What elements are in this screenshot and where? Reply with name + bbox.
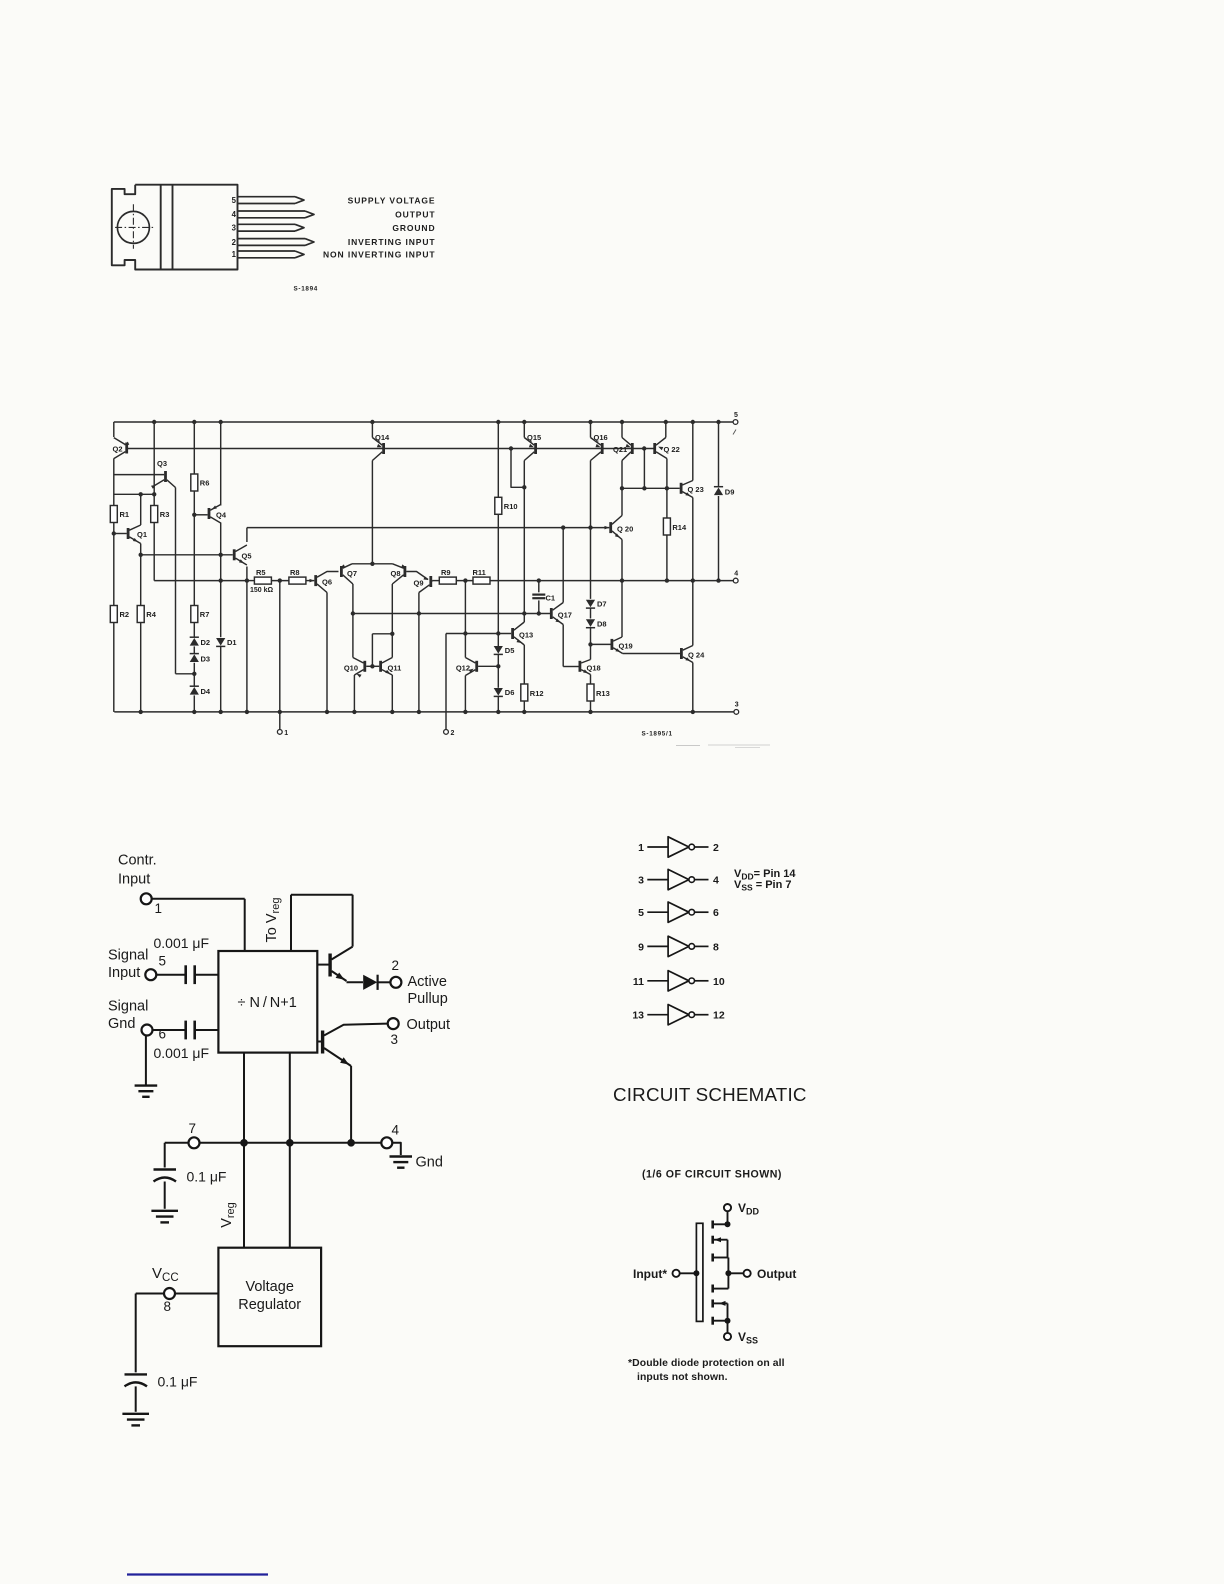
wire column Q3 collector [175, 488, 177, 674]
capacitor 0.001uF lower [153, 1029, 186, 1031]
transistor Q22 [653, 443, 656, 454]
transistor Q18 [579, 661, 582, 672]
svg-text:inputs not shown.: inputs not shown. [637, 1372, 728, 1383]
wire Q21 Q22 base tie down [643, 449, 645, 489]
pin 4 terminal [733, 578, 738, 583]
transistor Q15 [534, 443, 537, 454]
diode D2 [190, 638, 199, 646]
junction dots supply node [240, 1139, 248, 1147]
wire Q18 emitter to R13 [590, 675, 592, 685]
resistor R1 [110, 506, 117, 523]
wire compensation node line to Q17 base [353, 613, 550, 615]
diode D8 [586, 619, 595, 627]
wire Q11 emitter down [391, 675, 393, 712]
svg-text:R12: R12 [530, 689, 544, 698]
diode D7 [586, 600, 595, 608]
svg-text:Q6: Q6 [322, 578, 332, 587]
capacitor C1 [538, 581, 540, 593]
wire Q20 emitter to output rail [621, 540, 623, 581]
svg-text:R10: R10 [504, 502, 518, 511]
svg-text:C1: C1 [546, 594, 556, 603]
svg-text:Q21: Q21 [613, 445, 627, 454]
svg-text:5: 5 [638, 907, 644, 919]
svg-text:S-1895/1: S-1895/1 [642, 731, 673, 738]
transistor Q4 [208, 508, 211, 519]
diode D4 [190, 687, 199, 695]
svg-text:Input: Input [108, 965, 140, 981]
capacitor 0.001uF upper [156, 974, 185, 976]
wire Q14 emitter up [371, 422, 373, 438]
package pin 4 [238, 210, 306, 212]
junction dots bias line [561, 525, 565, 529]
transistor Q20 [609, 522, 612, 533]
transistor Q11 [379, 661, 382, 672]
svg-text:3: 3 [638, 875, 644, 887]
pin 3 terminal [734, 710, 739, 715]
wire lower emitter to ground node [350, 1066, 352, 1143]
wire Q15 base-collector loop [511, 449, 524, 488]
wire Q2-Q3 link line [114, 474, 164, 476]
VDD terminal [724, 1204, 731, 1211]
svg-text:13: 13 [632, 1010, 644, 1022]
diode D3 [190, 654, 199, 662]
pin 7 terminal [189, 1137, 200, 1148]
wire pin1 to divider block [152, 898, 245, 900]
junction dots bottom rail [139, 710, 143, 714]
wire base bus line y448 [127, 448, 655, 450]
junction dots output rail [219, 578, 223, 582]
wire Q13 emitter to R12 [523, 645, 525, 684]
voltage regulator block [218, 1248, 321, 1347]
transistor Q24 [680, 648, 683, 659]
ground symbol at pin 4 [392, 1143, 401, 1155]
wire Q23 collector up [692, 422, 694, 481]
pin 2 terminal [444, 730, 449, 735]
wire output node [728, 1272, 743, 1274]
svg-text:4: 4 [392, 1123, 400, 1138]
package pin 3 [238, 223, 296, 225]
svg-text:Pullup: Pullup [408, 991, 448, 1007]
svg-text:Q4: Q4 [216, 511, 227, 520]
junction dots compensation line [351, 611, 355, 615]
svg-text:Q12: Q12 [456, 663, 470, 672]
wire Q9 emitter column [418, 593, 420, 712]
svg-text:R2: R2 [120, 610, 130, 619]
svg-text:INVERTING INPUT: INVERTING INPUT [348, 237, 436, 247]
capacitor 0.1uF at pin7 [154, 1168, 177, 1170]
svg-text:Q2: Q2 [112, 445, 122, 454]
wire Q8 base to Q9 [406, 572, 428, 580]
svg-text:Voltage: Voltage [246, 1279, 294, 1295]
wire Q5 collector line to Q20 base [247, 527, 609, 529]
svg-text:12: 12 [713, 1010, 725, 1022]
svg-text:Regulator: Regulator [238, 1297, 301, 1313]
scan artifact dashes [676, 745, 700, 747]
diode to pin 2 [363, 975, 377, 990]
svg-text:Output: Output [757, 1267, 796, 1281]
pin 5 terminal [733, 420, 738, 425]
svg-text:D5: D5 [505, 646, 515, 655]
svg-text:1: 1 [284, 730, 288, 737]
svg-text:Q7: Q7 [347, 569, 357, 578]
svg-text:R13: R13 [596, 689, 610, 698]
wire node column N [464, 581, 466, 634]
svg-text:R8: R8 [290, 568, 300, 577]
transistor Q8 [403, 566, 406, 577]
wire Q19 collector up [621, 581, 623, 637]
wire Q20 collector up [621, 488, 623, 515]
pin 1 Control Input terminal [141, 893, 152, 904]
diode D1 [216, 638, 225, 646]
wire Q17 collector up [562, 528, 564, 603]
wire pin1 riser [279, 581, 281, 730]
svg-text:2: 2 [232, 238, 237, 247]
svg-text:6: 6 [159, 1027, 167, 1042]
wire supply node line pin7 to pin4 [200, 1142, 382, 1144]
junction dots Q23 base line [620, 486, 624, 490]
svg-text:6: 6 [713, 907, 719, 919]
svg-text:3: 3 [735, 702, 739, 709]
svg-text:0.001 μF: 0.001 μF [154, 935, 210, 951]
svg-text:7: 7 [189, 1121, 197, 1136]
svg-text:(1/6 OF CIRCUIT SHOWN): (1/6 OF CIRCUIT SHOWN) [642, 1169, 782, 1181]
resistor R13 [587, 684, 594, 701]
svg-text:D3: D3 [201, 654, 211, 663]
transistor Q16 [601, 443, 604, 454]
junction dots Q13 base line [463, 631, 467, 635]
package tab-body divider lines [160, 185, 162, 270]
svg-text:5: 5 [734, 412, 738, 419]
divider block N/N+1 [218, 951, 317, 1053]
svg-text:D8: D8 [597, 619, 607, 628]
wire Q19 emitter to Q24 base [623, 653, 680, 655]
svg-text:0.1 μF: 0.1 μF [158, 1374, 198, 1390]
wire Q16 emitter up [590, 422, 592, 438]
transistor Q10 [363, 661, 366, 672]
svg-text:Q17: Q17 [558, 611, 572, 620]
wire Q4 base link [194, 514, 207, 516]
package pin 2 [238, 238, 306, 240]
svg-text:0.1 μF: 0.1 μF [187, 1169, 227, 1185]
wire D9 column [718, 422, 720, 487]
svg-text:Q16: Q16 [594, 433, 608, 442]
junction dots base bus [509, 446, 513, 450]
svg-text:3: 3 [391, 1032, 399, 1047]
transistor Q12 [475, 661, 478, 672]
svg-text:D2: D2 [201, 638, 211, 647]
pin 2 Active Pullup terminal [390, 977, 401, 988]
wire output rail R5-R8 segment [247, 580, 255, 582]
transistor Q13 [511, 628, 514, 639]
wire Q8 collector column [391, 584, 393, 658]
junction dot emitter bus [370, 562, 374, 566]
diode D6 [494, 688, 503, 696]
svg-text:R5: R5 [256, 568, 266, 577]
svg-text:Output: Output [407, 1017, 451, 1033]
package mounting hole [117, 211, 149, 243]
package pin 1 [238, 250, 296, 252]
svg-text:Q1: Q1 [137, 530, 147, 539]
transistor Q23 [680, 483, 683, 494]
svg-text:0.001 μF: 0.001 μF [154, 1045, 210, 1061]
wire top supply rail to pin 5 [114, 421, 733, 423]
resistor R14 [663, 518, 670, 535]
resistor R9 [439, 577, 456, 584]
svg-text:OUTPUT: OUTPUT [395, 210, 435, 220]
wire Q10 Q11 base tie [366, 665, 379, 667]
svg-text:R4: R4 [146, 610, 156, 619]
transistor Q2 [125, 443, 128, 454]
svg-text:1: 1 [155, 901, 163, 916]
resistor R2 [110, 606, 117, 623]
svg-text:R1: R1 [120, 510, 130, 519]
svg-text:Q 20: Q 20 [617, 525, 633, 534]
wire Q10 emitter down [353, 675, 355, 712]
svg-text:9: 9 [638, 941, 644, 953]
wire Q7 collector column [352, 584, 354, 658]
resistor R6 [191, 474, 198, 491]
transistor Q17 [550, 608, 553, 619]
svg-text:D7: D7 [597, 600, 607, 609]
ground symbol at pin8 cap [122, 1413, 149, 1415]
svg-text:Q5: Q5 [242, 552, 252, 561]
resistor R12 [521, 684, 528, 701]
capacitor 0.1uF at pin8 [125, 1373, 148, 1375]
svg-text:D1: D1 [227, 638, 237, 647]
svg-text:3: 3 [232, 224, 237, 233]
gate electrode plate [696, 1223, 703, 1321]
package drawing TO-220 5-pin outline [112, 185, 238, 270]
VSS terminal [724, 1333, 731, 1340]
svg-text:Input: Input [118, 872, 150, 888]
Output terminal [744, 1270, 751, 1277]
svg-text:2: 2 [451, 730, 455, 737]
svg-text:Q3: Q3 [157, 459, 167, 468]
transistor Q3 [164, 471, 167, 482]
svg-text:150 kΩ: 150 kΩ [250, 587, 274, 594]
svg-text:Q14: Q14 [375, 433, 390, 442]
package pin 5 [238, 196, 296, 198]
svg-text:SUPPLY VOLTAGE: SUPPLY VOLTAGE [348, 195, 436, 205]
resistor R11 [473, 577, 490, 584]
transistor upper active pullup [328, 954, 331, 977]
wire Q9 collector to R9 [431, 580, 433, 583]
svg-text:Signal: Signal [108, 948, 148, 964]
transistor Q1 [127, 528, 130, 539]
wire Q21 collector down [621, 461, 623, 489]
transistor Q14 [382, 443, 385, 454]
svg-text:D4: D4 [201, 687, 211, 696]
wire R1 top link line [114, 493, 154, 495]
wire column Q4 D1 [220, 422, 222, 506]
pmos upper transistor [711, 1221, 714, 1229]
junction dots cmos [725, 1221, 731, 1227]
resistor R7 [191, 606, 198, 623]
wire Q15 emitter up [523, 422, 525, 438]
svg-text:2: 2 [392, 958, 400, 973]
resistor R5 150k [254, 577, 271, 584]
svg-text:Q13: Q13 [519, 630, 533, 639]
wire column R3 [153, 422, 155, 506]
wire pin2 riser [445, 634, 447, 730]
svg-text:R6: R6 [200, 479, 210, 488]
transistor Q9 [429, 576, 432, 587]
wire Q21 emitter up [621, 422, 623, 438]
wire Q12 base link [478, 665, 498, 667]
wire bottom rail to pin 3 [114, 711, 734, 713]
svg-text:NON INVERTING INPUT: NON INVERTING INPUT [323, 250, 436, 260]
wire column Q5 emitter down [246, 528, 248, 542]
wire R14 column [666, 459, 668, 519]
svg-text:4: 4 [232, 210, 237, 219]
diode D9 [714, 488, 723, 496]
wire column Q16 collector D7 D8 [590, 461, 592, 599]
svg-text:4: 4 [713, 875, 719, 887]
wire Q6 emitter down [326, 593, 328, 712]
transistor lower output [321, 1031, 324, 1054]
svg-text:GROUND: GROUND [392, 223, 435, 233]
svg-text:÷ N / N+1: ÷ N / N+1 [238, 995, 297, 1011]
pin 1 terminal [277, 730, 282, 735]
wire left column A [113, 422, 115, 437]
diode D5 [494, 646, 503, 654]
wire Q24 collector up [692, 581, 694, 646]
svg-text:5: 5 [232, 196, 237, 205]
wire output rail right segment to pin 4 [432, 580, 439, 582]
svg-text:Gnd: Gnd [416, 1155, 443, 1171]
svg-text:4: 4 [734, 570, 738, 577]
wire pin7 to decoupling cap [165, 1142, 189, 1144]
svg-text:*Double diode protection on al: *Double diode protection on all [628, 1358, 785, 1369]
transistor Q7 [340, 566, 343, 577]
resistor R10 [495, 497, 502, 514]
svg-text:1: 1 [638, 842, 644, 854]
resistor R3 [151, 506, 158, 523]
wire Q17 emitter to Q18 base [562, 625, 564, 667]
svg-text:Q19: Q19 [619, 641, 633, 650]
ground symbol signal gnd [145, 1036, 147, 1086]
svg-text:Q18: Q18 [587, 663, 601, 672]
svg-text:Gnd: Gnd [108, 1016, 135, 1032]
svg-text:1: 1 [232, 250, 237, 259]
wire pin8 to decoupling cap [136, 1293, 164, 1295]
svg-text:R7: R7 [200, 610, 210, 619]
svg-text:Signal: Signal [108, 999, 148, 1015]
svg-text:D9: D9 [725, 488, 735, 497]
svg-text:Q8: Q8 [390, 569, 400, 578]
wire Q1 collector emitter column [140, 494, 142, 525]
output pair middle bars [711, 1254, 714, 1262]
wire R12 to ground rail [523, 701, 525, 712]
resistor R4 [137, 606, 144, 623]
resistor R8 [289, 577, 306, 584]
ground symbol at pin7 cap [151, 1210, 178, 1212]
svg-text:Q 22: Q 22 [664, 445, 680, 454]
svg-text:Q 24: Q 24 [688, 650, 705, 659]
wire Q7 Q8 emitter bus [352, 563, 393, 565]
svg-text:R3: R3 [160, 510, 170, 519]
svg-text:Q11: Q11 [388, 663, 402, 672]
wire column R10 D5 D6 [497, 422, 499, 497]
wire pin2 node line to Q13 base [446, 633, 511, 635]
svg-text:S-1894: S-1894 [294, 286, 319, 293]
wire Q24 emitter down [692, 663, 694, 712]
transistor Q19 [611, 639, 614, 650]
junction dots top rail [152, 420, 156, 424]
svg-text:2: 2 [713, 842, 719, 854]
transistor Q6 [314, 575, 317, 586]
wire Q14 collector column [371, 461, 373, 564]
wire Q23 base line [622, 487, 680, 489]
junction dots input mirror [139, 492, 143, 496]
svg-text:Q10: Q10 [344, 663, 358, 672]
wire R13 to ground rail [590, 701, 592, 712]
svg-text:11: 11 [633, 976, 644, 988]
wire output rail left segment [154, 580, 247, 582]
transistor Q21 [631, 443, 634, 454]
wire Vreg loop to upper transistor collector [290, 895, 292, 951]
svg-text:10: 10 [713, 976, 725, 988]
svg-text:8: 8 [713, 941, 719, 953]
svg-text:Input*: Input* [633, 1267, 667, 1281]
pin 4 Gnd terminal [381, 1137, 392, 1148]
footer rule blue [127, 1573, 268, 1575]
svg-text:Q9: Q9 [414, 579, 424, 588]
wire column R6 R7 diodes [193, 422, 195, 474]
wire Q5 base line [141, 554, 233, 556]
svg-text:8: 8 [164, 1299, 172, 1314]
svg-text:R11: R11 [473, 568, 486, 577]
svg-text:R14: R14 [672, 523, 687, 532]
pin 3 Output terminal [388, 1018, 399, 1029]
wire block bottom to regulator [243, 1053, 245, 1248]
svg-text:CIRCUIT SCHEMATIC: CIRCUIT SCHEMATIC [613, 1084, 807, 1105]
nmos lower transistor [711, 1300, 714, 1308]
svg-text:Q15: Q15 [527, 433, 541, 442]
transistor Q5 [233, 549, 236, 560]
svg-text:Active: Active [408, 974, 448, 990]
wire Q15 collector column [523, 461, 525, 614]
svg-text:Contr.: Contr. [118, 853, 157, 869]
svg-text:Q 23: Q 23 [688, 485, 704, 494]
wire Q23 emitter to output rail [692, 498, 694, 581]
svg-text:5: 5 [159, 954, 167, 969]
wire Q22 emitter up [665, 422, 667, 438]
svg-text:D6: D6 [505, 688, 515, 697]
svg-text:R9: R9 [441, 568, 451, 577]
